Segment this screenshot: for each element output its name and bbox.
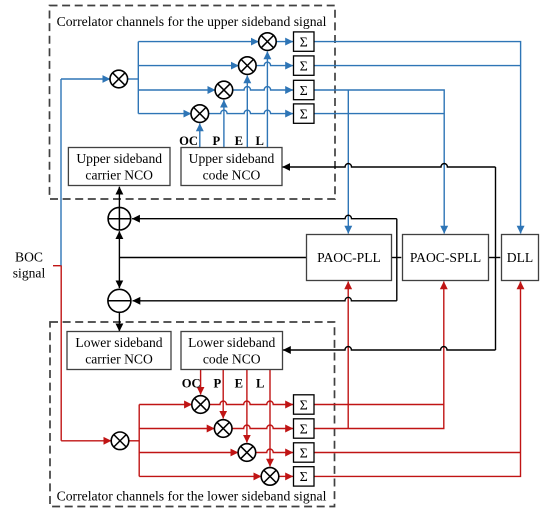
- svg-text:PAOC-SPLL: PAOC-SPLL: [410, 250, 481, 265]
- wire: P tap to PAOC-PLL top: [347, 90, 349, 234]
- wire: row L into mixer M2: [138, 41, 258, 43]
- svg-text:Lower sideband: Lower sideband: [75, 335, 162, 350]
- multiplier M9 (lower E): [238, 444, 256, 462]
- wire: row L into mixer M10: [139, 475, 261, 477]
- dashed box: lower correlator channels: [50, 322, 335, 507]
- svg-text:Upper sideband: Upper sideband: [76, 151, 162, 166]
- integrator S5 (sigma): [294, 395, 315, 414]
- wire: into upper carrier mixer: [61, 78, 110, 80]
- wire: M10 to S8: [279, 475, 293, 477]
- integrator S1 (sigma): [294, 32, 315, 51]
- integrator S2 (sigma): [294, 56, 315, 75]
- wire: S2 (E) joins DLL line: [314, 65, 521, 67]
- wire: M9 to S7: [256, 449, 293, 453]
- wire: row E into mixer M9: [139, 452, 238, 454]
- integrator S3 (sigma): [294, 80, 315, 99]
- wire: lower carrier mixer output: [129, 440, 139, 442]
- wire: M2 to S1: [276, 41, 293, 43]
- svg-text:code NCO: code NCO: [203, 351, 261, 366]
- svg-text:BOC: BOC: [15, 250, 43, 265]
- svg-text:Correlator channels for the up: Correlator channels for the upper sideba…: [57, 14, 327, 29]
- integrator S8 (sigma): [294, 467, 315, 486]
- wire: row OC into mixer M7: [139, 404, 192, 406]
- multiplier M5 (upper OC): [191, 105, 209, 123]
- wire: OC code line down: [200, 370, 202, 395]
- wire: row P into mixer M8: [139, 428, 214, 430]
- wire: into lower carrier mixer: [61, 440, 111, 442]
- wire: adder A2 to lower carrier NCO: [118, 312, 120, 331]
- block: DLL: [502, 235, 539, 281]
- wire: P code line up: [223, 100, 225, 148]
- wire: S4 (OC) joins SPLL line: [314, 113, 444, 115]
- block: lower sideband carrier NCO: [67, 332, 171, 370]
- integrator S6 (sigma): [294, 419, 315, 438]
- block: PAOC-PLL: [307, 235, 392, 281]
- wire: L code line down: [269, 370, 271, 467]
- svg-text:DLL: DLL: [507, 250, 533, 265]
- svg-text:Σ: Σ: [300, 107, 308, 122]
- svg-text:L: L: [256, 377, 264, 391]
- multiplier M10 (lower L): [261, 468, 279, 486]
- block: lower sideband code NCO: [181, 332, 283, 370]
- wire: row OC into mixer M5: [138, 113, 191, 115]
- wire: row E into mixer M3: [138, 65, 238, 67]
- wire: PLL feedback up into adder A1: [118, 231, 120, 257]
- wire: M4 to S3: [233, 87, 293, 91]
- adder A2 (lower, minus): [108, 289, 131, 312]
- multiplier M2 (upper L): [259, 33, 277, 51]
- adder A1 (upper, plus): [108, 207, 131, 230]
- block: PAOC-SPLL: [403, 235, 489, 281]
- svg-text:Lower sideband: Lower sideband: [188, 335, 275, 350]
- svg-text:PAOC-PLL: PAOC-PLL: [317, 250, 381, 265]
- svg-text:carrier NCO: carrier NCO: [85, 167, 153, 182]
- wire: M3 to S2: [256, 62, 293, 66]
- svg-text:OC: OC: [179, 134, 198, 148]
- svg-text:Σ: Σ: [300, 84, 308, 99]
- block: upper sideband code NCO: [181, 148, 282, 186]
- integrator S7 (sigma): [294, 443, 315, 462]
- wire: lower branch vertical: [138, 405, 140, 477]
- svg-text:Σ: Σ: [300, 59, 308, 74]
- wire: OC code line up: [199, 124, 201, 148]
- integrator S4 (sigma): [294, 104, 315, 123]
- multiplier M8 (lower P): [214, 420, 232, 438]
- wire: BOC to lower branch (red vertical): [60, 265, 62, 440]
- wire: adder A1 to upper carrier NCO: [118, 187, 120, 208]
- svg-text:Upper sideband: Upper sideband: [189, 151, 275, 166]
- wire: BOC input stub: [53, 265, 61, 267]
- wire: PLL output to adders: [119, 257, 306, 259]
- wire: PLL feedback down into adder A2: [118, 258, 120, 289]
- wire: DLL feedback vertical: [495, 167, 497, 350]
- wire: BOC to upper branch (blue vertical): [60, 79, 62, 266]
- svg-text:Σ: Σ: [300, 35, 308, 50]
- wire: S7 (E) joins DLL line: [314, 452, 521, 454]
- svg-text:Σ: Σ: [300, 470, 308, 485]
- block: upper sideband carrier NCO: [68, 148, 170, 186]
- wire: M7 to S5: [209, 401, 293, 405]
- wire: P code line down: [222, 370, 224, 419]
- dashed box: upper correlator channels: [50, 6, 336, 200]
- wire: SPLL-DLL link: [489, 257, 501, 259]
- svg-text:Σ: Σ: [300, 422, 308, 437]
- wire: PLL-SPLL link: [392, 257, 402, 259]
- multiplier M6 (lower carrier): [111, 432, 129, 450]
- wire: SPLL feedback into adder A1: [132, 215, 397, 218]
- svg-text:Σ: Σ: [300, 398, 308, 413]
- wire: S1 (L) to DLL top: [314, 42, 521, 234]
- wire: SPLL feedback into adder A2: [133, 297, 397, 301]
- labels: upper OC P E L: [179, 134, 264, 148]
- wire: P tap to PAOC-PLL bottom: [347, 282, 349, 429]
- wire: DLL feedback to lower code NCO: [283, 347, 496, 350]
- wire: upper carrier mixer output: [128, 78, 139, 80]
- wire: DLL feedback to upper code NCO: [282, 164, 495, 168]
- wire: E code line up: [246, 76, 248, 148]
- wire: S6 (P) to PAOC-SPLL bottom: [314, 282, 444, 429]
- wire: E code line down: [246, 370, 248, 443]
- svg-text:E: E: [235, 134, 243, 148]
- label: BOC signal: [13, 250, 46, 281]
- svg-text:L: L: [255, 134, 263, 148]
- wire: SPLL feedback vertical: [396, 219, 398, 301]
- svg-text:code NCO: code NCO: [203, 167, 261, 182]
- labels: lower OC P E L: [182, 377, 265, 391]
- svg-text:signal: signal: [13, 266, 46, 281]
- multiplier M4 (upper P): [215, 81, 233, 99]
- svg-text:carrier NCO: carrier NCO: [85, 351, 153, 366]
- svg-text:P: P: [212, 134, 220, 148]
- svg-text:P: P: [214, 377, 222, 391]
- wire: row P into mixer M4: [138, 89, 215, 91]
- svg-text:Σ: Σ: [300, 446, 308, 461]
- wire: S5 (OC) joins SPLL line: [314, 404, 444, 406]
- wire: S3 (P) to PAOC-SPLL top: [314, 90, 444, 234]
- wire: M5 to S4: [209, 110, 293, 114]
- svg-text:OC: OC: [182, 377, 201, 391]
- wire: upper branch vertical: [137, 42, 139, 114]
- wire: M8 to S6: [232, 425, 293, 429]
- svg-text:Correlator channels for the lo: Correlator channels for the lower sideba…: [57, 489, 327, 504]
- wire: L code line up: [266, 52, 268, 148]
- multiplier M1 (upper carrier): [110, 70, 128, 88]
- wire: S8 (L) to DLL bottom: [314, 282, 521, 477]
- multiplier M3 (upper E): [239, 57, 257, 75]
- multiplier M7 (lower OC): [192, 396, 210, 414]
- svg-text:E: E: [235, 377, 243, 391]
